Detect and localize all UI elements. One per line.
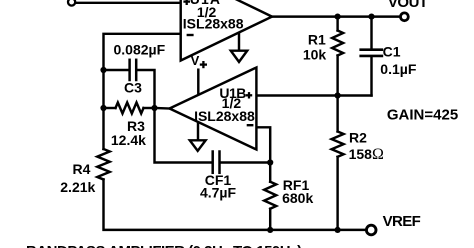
svg-text:C1: C1 [383,43,401,59]
svg-text:10k: 10k [303,46,327,62]
svg-text:ISL28x88: ISL28x88 [194,108,255,124]
svg-text:BANDPASS AMPLIFIER (0.3Hz TO 1: BANDPASS AMPLIFIER (0.3Hz TO 150Hz) [26,243,302,248]
svg-text:0.082µF: 0.082µF [114,41,166,57]
svg-text:C3: C3 [124,80,142,96]
svg-text:GAIN=425: GAIN=425 [387,107,458,124]
svg-text:4.7µF: 4.7µF [200,185,237,201]
svg-text:VOUT: VOUT [388,0,428,11]
svg-text:R2: R2 [349,129,367,145]
svg-text:158Ω: 158Ω [349,146,384,163]
svg-text:0.1µF: 0.1µF [380,61,417,77]
svg-text:R4: R4 [73,161,91,177]
svg-text:V: V [191,53,200,68]
svg-text:12.4k: 12.4k [111,132,146,148]
svg-text:2.21k: 2.21k [60,179,95,195]
svg-text:R1: R1 [308,31,326,47]
svg-text:680k: 680k [282,190,313,206]
svg-text:VREF: VREF [383,213,421,230]
svg-text:ISL28x88: ISL28x88 [183,16,244,32]
